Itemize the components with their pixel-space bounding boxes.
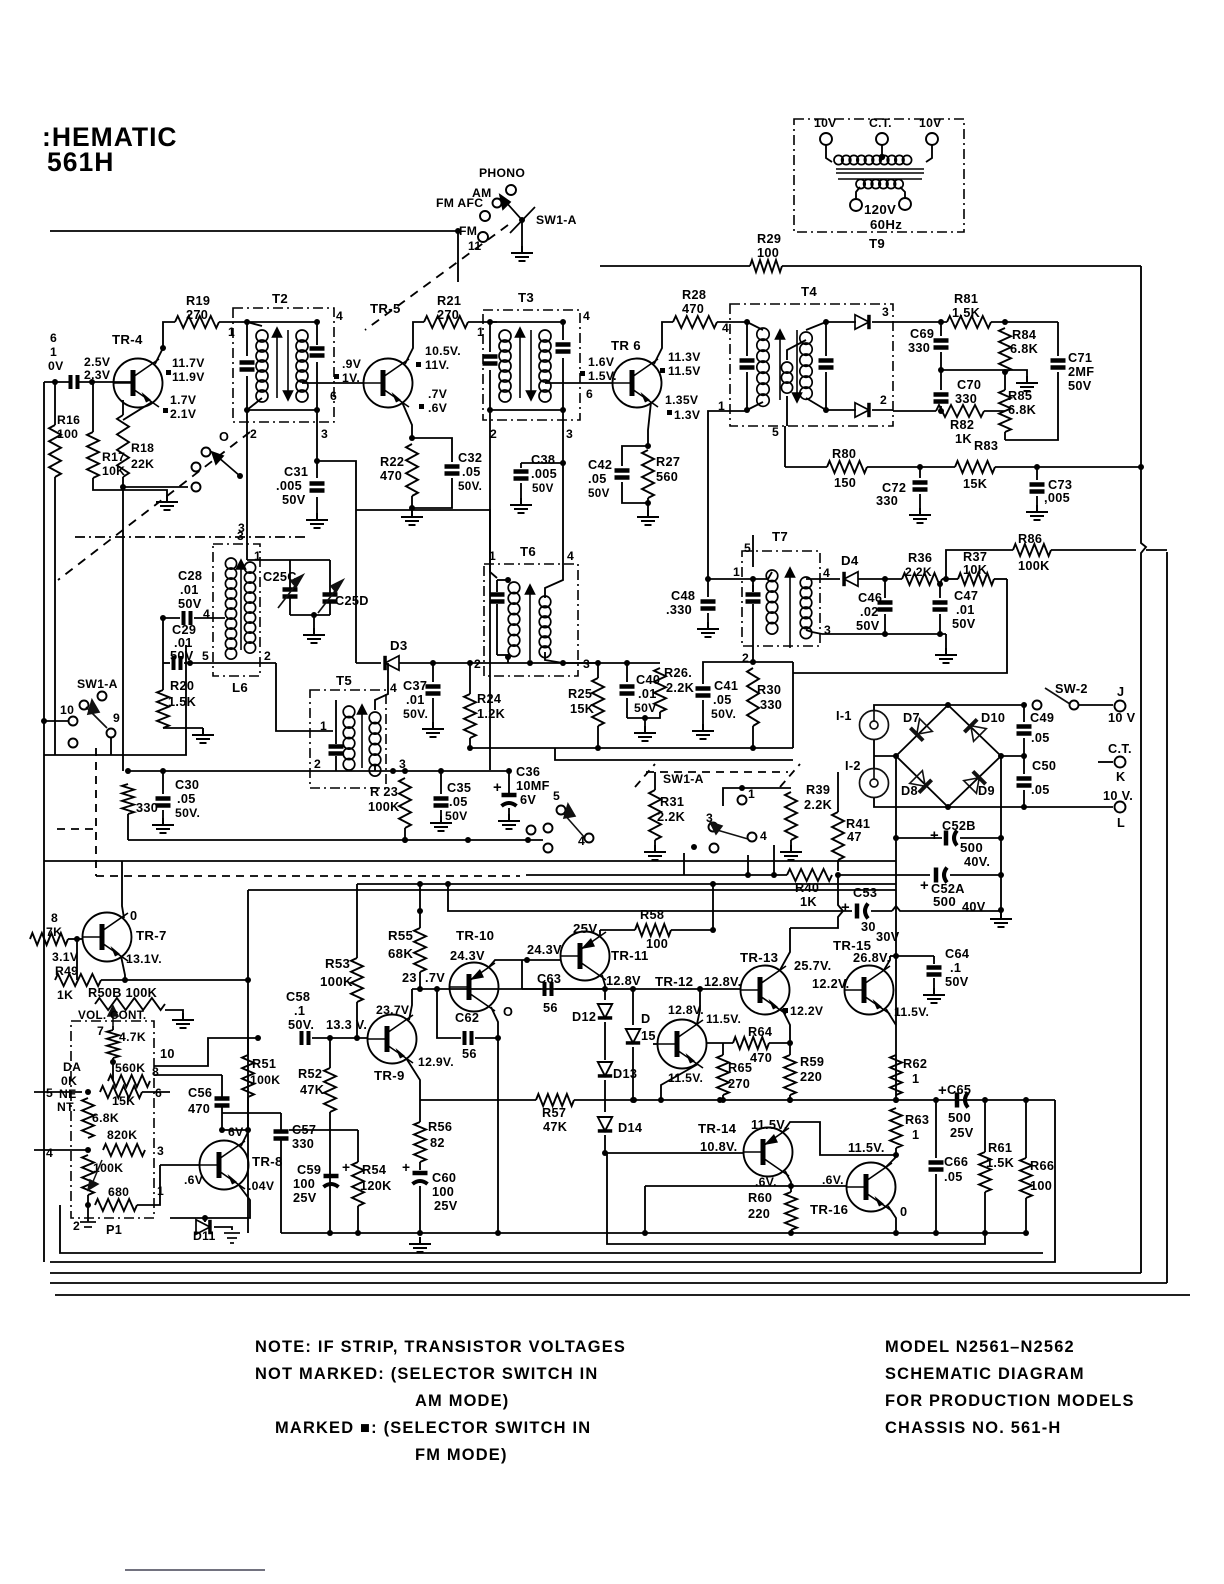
wire R17 to gnd xyxy=(93,478,167,495)
wire frame L1 xyxy=(60,1205,1043,1253)
bracket C42 bottom xyxy=(622,482,648,503)
svg-text:3: 3 xyxy=(583,657,590,671)
wire TR-7 base xyxy=(68,938,83,940)
wire R81 out xyxy=(991,321,1058,323)
junction row989 tr12 xyxy=(697,986,703,992)
capacitor C40 xyxy=(620,687,635,694)
svg-text:6: 6 xyxy=(155,1086,162,1100)
wire row760 xyxy=(555,748,793,760)
wire C38 bot xyxy=(520,483,522,498)
junction gnd center xyxy=(998,907,1004,913)
wire C40 vert b xyxy=(626,698,628,718)
wire left col down xyxy=(122,487,124,771)
svg-text:R24: R24 xyxy=(477,691,501,706)
resistor R16 xyxy=(49,425,61,477)
junction T4 sec bot xyxy=(823,407,829,413)
svg-text:50V.: 50V. xyxy=(175,806,200,820)
svg-text:24.3V: 24.3V xyxy=(527,942,562,957)
wire T3 right vert bot xyxy=(562,358,564,410)
junction bus c xyxy=(787,1097,793,1103)
wire band switch row xyxy=(123,486,188,488)
transistor TR-7 xyxy=(83,913,132,962)
wire tune gnd stub xyxy=(313,615,315,628)
inductor T2 secondary xyxy=(296,330,308,402)
transistor TR-14 body xyxy=(744,1128,793,1177)
wire TR-16 emitter xyxy=(888,1206,896,1233)
junction T6 pri bot xyxy=(505,654,511,660)
transistor TR-13 xyxy=(741,966,790,1015)
svg-text:1V.: 1V. xyxy=(342,371,360,385)
svg-text:R82: R82 xyxy=(950,417,974,432)
junction R18 bottom xyxy=(120,484,126,490)
svg-text:1: 1 xyxy=(912,1127,919,1142)
junction row875 a xyxy=(745,872,751,878)
capacitor C66 xyxy=(929,1163,944,1170)
svg-text:50V: 50V xyxy=(445,809,468,823)
svg-text:1: 1 xyxy=(228,325,235,339)
wire T3 pin2 down xyxy=(489,410,491,770)
wire row989 xyxy=(412,988,741,990)
junction TR-7 em node xyxy=(122,977,128,983)
junction R61 bot xyxy=(982,1230,988,1236)
svg-text:.05: .05 xyxy=(462,464,481,479)
junction bridge left xyxy=(893,753,899,759)
ground SW1-A xyxy=(511,246,533,261)
svg-text:820K: 820K xyxy=(107,1128,137,1142)
svg-text:330: 330 xyxy=(955,391,977,406)
svg-text:D: D xyxy=(641,1011,651,1026)
svg-text:C31: C31 xyxy=(284,464,308,479)
svg-text:D12: D12 xyxy=(572,1009,596,1024)
wire T3 right vert top xyxy=(562,322,564,340)
wire TR-16 collector xyxy=(886,1157,896,1167)
wire T6 pri cap bot xyxy=(497,654,508,656)
wire swa 9 down xyxy=(110,738,112,755)
svg-text:470: 470 xyxy=(750,1050,772,1065)
svg-text:470: 470 xyxy=(682,301,704,316)
wire pin4 stub xyxy=(34,1149,88,1151)
transistor TR-12 body xyxy=(658,1020,707,1069)
wire T2 right vert top xyxy=(316,322,318,345)
wire TR10 to TR11 xyxy=(527,959,560,961)
contact sw3 4 xyxy=(585,834,594,843)
svg-text:R29: R29 xyxy=(757,231,781,246)
svg-text:11.9V: 11.9V xyxy=(172,370,205,384)
svg-text:TR-8: TR-8 xyxy=(252,1154,283,1169)
junction rail A 467 xyxy=(1138,464,1144,470)
inductor T4 primary xyxy=(757,328,769,406)
wire R64 in xyxy=(706,1042,733,1044)
junction C31 node xyxy=(314,458,320,464)
svg-text:.1: .1 xyxy=(294,1003,305,1018)
junction row989 a xyxy=(417,986,423,992)
svg-text:10.8V.: 10.8V. xyxy=(700,1139,737,1154)
wire C40 gnd stub xyxy=(644,718,646,726)
svg-text:+: + xyxy=(493,780,502,796)
svg-text:R18: R18 xyxy=(131,441,154,455)
junction row1233 c xyxy=(417,1230,423,1236)
wire mid gnd tap xyxy=(1005,370,1027,376)
inductor T5 secondary xyxy=(369,712,381,776)
wire TR-15 collector xyxy=(884,956,890,970)
resistor R49 xyxy=(55,974,101,986)
svg-text:C53: C53 xyxy=(853,885,877,900)
wire T2 coil top xyxy=(247,322,262,326)
svg-text:100K: 100K xyxy=(320,974,353,989)
resistor R28 xyxy=(673,316,717,328)
junction C30 top xyxy=(160,768,166,774)
junction tune gnd xyxy=(311,612,317,618)
wire C35 vert b xyxy=(440,810,442,816)
svg-text:1.35V: 1.35V xyxy=(665,393,699,407)
svg-text:1.5K: 1.5K xyxy=(168,694,197,709)
wire C50 vert b xyxy=(1023,790,1025,807)
wire row748 xyxy=(470,747,793,749)
transformer T9 box xyxy=(794,119,964,232)
svg-text:40V.: 40V. xyxy=(964,854,990,869)
wire R50B gnd xyxy=(165,1010,183,1013)
bracket R26 top xyxy=(627,662,660,664)
svg-text:10.5V.: 10.5V. xyxy=(425,344,461,358)
svg-text:D3: D3 xyxy=(390,638,408,653)
capacitor C63 xyxy=(545,982,552,996)
transistor TR-10 xyxy=(450,963,499,1012)
svg-text:0V: 0V xyxy=(48,359,64,373)
wire TR-12 collector xyxy=(697,989,700,1024)
wire R17 top xyxy=(92,382,94,432)
wire D14 bot xyxy=(604,1135,606,1153)
svg-text:D7: D7 xyxy=(903,710,920,725)
junction bridge bottom xyxy=(945,804,951,810)
contact swa 10 xyxy=(69,717,78,726)
wire T3 left vert top xyxy=(489,322,491,352)
wire R65 bot xyxy=(722,1095,724,1100)
wire frame L2 xyxy=(50,1100,1055,1262)
svg-text:10V: 10V xyxy=(919,116,942,130)
junction C40 top xyxy=(624,660,630,666)
svg-text:.6V: .6V xyxy=(184,1173,204,1187)
wire TR-6 emitter xyxy=(648,402,651,446)
svg-text:FM MODE): FM MODE) xyxy=(415,1446,508,1464)
junction T7 in xyxy=(750,576,756,582)
transformer T6 box xyxy=(484,564,578,676)
ground R17 xyxy=(156,495,178,510)
inductor T6 primary xyxy=(508,582,520,657)
svg-text:L6: L6 xyxy=(232,680,248,695)
wire T9 sec left xyxy=(856,187,860,200)
transistor TR-6 xyxy=(613,359,662,408)
junction C49 C50 xyxy=(1021,753,1027,759)
wire R24 bot xyxy=(469,738,471,748)
resistor R21 xyxy=(424,316,468,328)
resistor R65 xyxy=(717,1055,729,1095)
svg-text:R36: R36 xyxy=(908,550,932,565)
junction T2 right bot xyxy=(314,407,320,413)
lamp I-2 xyxy=(860,768,889,798)
wire T2 right vert bot xyxy=(316,362,318,410)
resistor R22 xyxy=(406,444,418,496)
junction R84 R85 xyxy=(1002,369,1008,375)
wire T9 lead left xyxy=(826,145,832,162)
junction C46 bot xyxy=(882,631,888,637)
svg-text:CHASSIS NO. 561-H: CHASSIS NO. 561-H xyxy=(885,1419,1061,1437)
svg-text:1.5K: 1.5K xyxy=(952,305,981,320)
resistor P1 100K xyxy=(82,1155,94,1195)
junction R22 bottom xyxy=(409,505,415,511)
arrow T4 up xyxy=(776,330,785,400)
junction C66 bot xyxy=(933,1230,939,1236)
svg-text:100K: 100K xyxy=(250,1073,280,1087)
svg-text:10MF: 10MF xyxy=(516,778,550,793)
svg-text:13.3 V.: 13.3 V. xyxy=(326,1017,367,1032)
resistor R84 xyxy=(999,328,1011,372)
junction C47 top xyxy=(937,581,943,587)
diode D7 xyxy=(910,719,932,741)
wire C28C29 left xyxy=(162,618,164,690)
junction bus e xyxy=(933,1097,939,1103)
svg-text:D13: D13 xyxy=(613,1066,637,1081)
wire D15 top xyxy=(632,989,634,1025)
wire R49 drop xyxy=(76,939,78,980)
svg-text:T9: T9 xyxy=(869,236,885,251)
diode D15 xyxy=(626,1029,640,1043)
svg-text:50V: 50V xyxy=(282,492,306,507)
junction T9 ct dot xyxy=(879,154,885,160)
svg-text:150: 150 xyxy=(834,475,856,490)
wire R52 bot xyxy=(329,1112,331,1233)
capacitor C64 xyxy=(927,968,942,975)
svg-text:4: 4 xyxy=(567,549,574,563)
wire R66 bot xyxy=(1025,1198,1027,1233)
junction R60 bot xyxy=(788,1230,794,1236)
capacitor C38 xyxy=(514,472,529,479)
wire TR-9 collector xyxy=(409,989,412,1020)
inductor T3 secondary xyxy=(539,330,551,402)
wire C63 feed xyxy=(521,960,523,989)
junction R27 top xyxy=(645,443,651,449)
wire C37 bot xyxy=(432,698,434,722)
terminal C.T. xyxy=(876,133,888,145)
svg-text:1.2K: 1.2K xyxy=(477,706,506,721)
svg-text:R28: R28 xyxy=(682,287,706,302)
svg-text:SW1-A: SW1-A xyxy=(536,213,577,227)
svg-text:47: 47 xyxy=(847,829,862,844)
svg-text:R53: R53 xyxy=(325,956,350,971)
svg-text:R19: R19 xyxy=(186,293,210,308)
svg-text:FM: FM xyxy=(459,224,477,238)
wire C63 left xyxy=(522,988,541,990)
svg-text:561H: 561H xyxy=(47,147,114,177)
wire R24 top xyxy=(469,663,471,694)
contact sw3 b xyxy=(544,824,553,833)
junction TR16 em xyxy=(893,1230,899,1236)
junction R16 top xyxy=(52,379,58,385)
capacitor T2 secondary xyxy=(310,349,325,356)
svg-text:.04V: .04V xyxy=(248,1179,275,1193)
wire R58 in xyxy=(600,929,635,931)
wire TR-7 emitter xyxy=(121,956,125,980)
junction R65 bot xyxy=(720,1097,726,1103)
wire rail467 c xyxy=(995,466,1141,468)
svg-text:2.3V: 2.3V xyxy=(84,368,111,382)
svg-text:.6V: .6V xyxy=(428,401,448,415)
ground main filter xyxy=(990,912,1012,927)
svg-text:5: 5 xyxy=(46,1086,53,1100)
svg-text:C50: C50 xyxy=(1032,758,1056,773)
svg-text:10K: 10K xyxy=(963,562,988,577)
svg-text:C30: C30 xyxy=(175,777,199,792)
junction sw2 1 xyxy=(739,785,745,791)
wire TR-12 emitter xyxy=(661,1064,698,1100)
wire R56 bot xyxy=(419,1162,421,1170)
svg-text:25V: 25V xyxy=(293,1190,317,1205)
wire row634 xyxy=(822,633,946,635)
wire audio left rail xyxy=(247,890,249,1233)
junction C29 out xyxy=(187,660,193,666)
svg-text:C56: C56 xyxy=(188,1085,212,1100)
dashed diagonal AM line xyxy=(58,432,250,580)
svg-text:2: 2 xyxy=(250,427,257,441)
svg-text:1K: 1K xyxy=(57,988,73,1002)
diode D14 xyxy=(598,1117,612,1131)
terminal 10V left xyxy=(820,133,832,145)
wire TR-4 collector xyxy=(155,322,175,364)
svg-text:R25: R25 xyxy=(568,686,592,701)
svg-text:T4: T4 xyxy=(801,284,817,299)
capacitor C65 xyxy=(957,1093,968,1108)
junction R25 bottom xyxy=(595,745,601,751)
ground R20 xyxy=(192,728,214,743)
wire T6 pin1 feed xyxy=(356,510,497,578)
svg-text:100: 100 xyxy=(646,936,668,951)
wire bus1100 b xyxy=(574,1099,1055,1101)
contact sw b2 xyxy=(192,483,201,492)
wire 100K to 680 xyxy=(87,1195,89,1205)
contact swa pivot xyxy=(80,701,89,710)
svg-text:220: 220 xyxy=(748,1206,770,1221)
terminal 120V a xyxy=(850,199,862,211)
transformer T7 box xyxy=(742,551,820,646)
transistor TR-16 xyxy=(847,1163,896,1212)
svg-text:330: 330 xyxy=(876,493,898,508)
wire row663 d xyxy=(598,662,627,664)
junction C69 top xyxy=(938,319,944,325)
svg-text:10 V: 10 V xyxy=(1108,710,1136,725)
junction C50 bot xyxy=(1021,804,1027,810)
marker TR-6 b xyxy=(667,410,672,415)
wire row663 b xyxy=(399,662,530,664)
wire T6 sec bot xyxy=(545,652,563,663)
junction C36 top xyxy=(506,768,512,774)
resistor R53 xyxy=(351,958,363,1002)
contact PHONO xyxy=(506,185,516,195)
resistor R64 xyxy=(733,1037,769,1049)
junction P1 a xyxy=(110,1059,116,1065)
wire R82 left xyxy=(893,410,936,412)
inductor T9 secondary xyxy=(856,179,903,188)
svg-text:5: 5 xyxy=(772,425,779,439)
resistor P1 680 xyxy=(95,1199,137,1211)
wire C57 bot xyxy=(280,1140,282,1233)
junction row884 b xyxy=(445,881,451,887)
wire bridge left down xyxy=(895,756,897,1100)
wire row890 xyxy=(248,889,896,891)
svg-text:4: 4 xyxy=(823,566,830,580)
capacitor C71 xyxy=(1051,361,1066,368)
wire T2 coil bot xyxy=(247,398,262,410)
wire D11 gnd xyxy=(214,1227,232,1230)
svg-text:R27: R27 xyxy=(656,454,680,469)
svg-text:TR-13: TR-13 xyxy=(740,950,778,965)
svg-text:50V: 50V xyxy=(945,974,969,989)
svg-text:4: 4 xyxy=(390,681,397,695)
junction TR10 coll xyxy=(524,957,530,963)
svg-text:13.1V.: 13.1V. xyxy=(126,952,162,966)
resistor R55 xyxy=(414,928,426,972)
svg-text:50V.: 50V. xyxy=(288,1017,314,1032)
arrow T2 down xyxy=(284,330,293,400)
svg-text:10: 10 xyxy=(60,703,74,717)
wire R59 bot xyxy=(789,1095,791,1100)
svg-text:12.8V.: 12.8V. xyxy=(704,974,741,989)
wire T7 cap vert xyxy=(752,585,754,592)
wire T6 sec top xyxy=(545,463,563,598)
wire C57 top2 xyxy=(280,1113,282,1130)
switch pivot xyxy=(519,217,525,223)
capacitor C46 xyxy=(878,603,893,610)
svg-text:T3: T3 xyxy=(518,290,534,305)
wire rail 266 right xyxy=(782,265,1141,267)
wire C46 vert xyxy=(884,579,886,598)
bridge top-right xyxy=(948,705,1001,756)
junction D15 bot xyxy=(630,1097,636,1103)
junction C62 in xyxy=(434,986,440,992)
svg-text:1K: 1K xyxy=(955,431,972,446)
junction row911 R55 xyxy=(417,908,423,914)
svg-text:50V: 50V xyxy=(588,487,610,500)
svg-text:R84: R84 xyxy=(1012,327,1036,342)
wire T4 bot out xyxy=(826,409,856,411)
wire C56 row xyxy=(222,1129,248,1131)
wire T4 sec bot link xyxy=(806,398,826,410)
wire C56 bot xyxy=(221,1107,223,1130)
svg-text:4: 4 xyxy=(46,1146,53,1160)
capacitor C35 xyxy=(434,799,449,806)
wire TR-6 collector xyxy=(654,322,673,364)
wire C47 vert b xyxy=(939,614,941,634)
wire left rail xyxy=(43,382,45,1262)
svg-text:D4: D4 xyxy=(841,553,859,568)
svg-text:.9V: .9V xyxy=(342,357,362,371)
junction C58 left xyxy=(255,1035,261,1041)
resistor R86 xyxy=(1013,544,1051,556)
wire R41 top xyxy=(837,772,839,812)
wire R54 bot xyxy=(357,1206,359,1233)
svg-text:30: 30 xyxy=(861,919,876,934)
svg-text:SW1-A: SW1-A xyxy=(77,677,118,691)
svg-text:10 V.: 10 V. xyxy=(1103,788,1133,803)
wire T5 sec bot xyxy=(374,765,376,771)
wire T4 pin1 riser xyxy=(708,411,747,579)
wire row840 xyxy=(128,839,543,841)
terminal 10V right xyxy=(926,133,938,145)
svg-text:R61: R61 xyxy=(988,1140,1012,1155)
resistor R62 xyxy=(890,1055,902,1095)
wire C64 vert b xyxy=(933,978,935,988)
svg-text:270: 270 xyxy=(728,1076,750,1091)
switch SW-2 arm xyxy=(1045,688,1070,704)
svg-text:T2: T2 xyxy=(272,291,288,306)
